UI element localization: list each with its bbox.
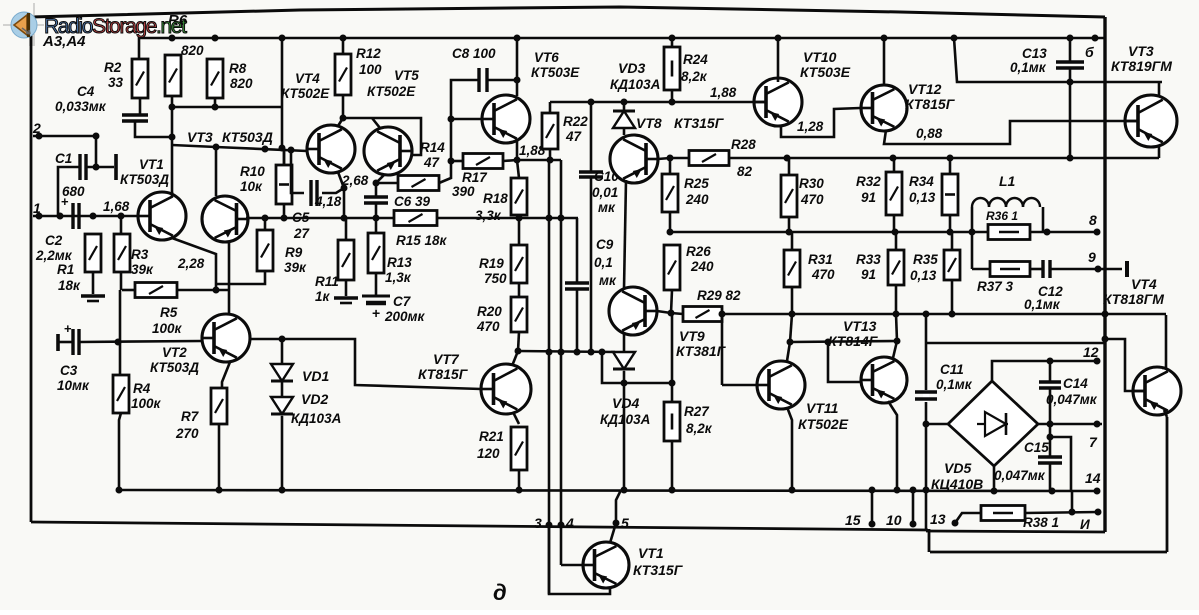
svg-text:R5: R5 — [160, 305, 178, 320]
svg-text:1к: 1к — [315, 289, 331, 304]
svg-text:КТ503Е: КТ503Е — [800, 64, 851, 80]
svg-text:КТ381Г: КТ381Г — [676, 343, 727, 359]
svg-text:33: 33 — [108, 75, 124, 90]
svg-text:VT6: VT6 — [534, 50, 559, 65]
svg-text:120: 120 — [477, 446, 500, 461]
svg-text:С4: С4 — [77, 84, 95, 99]
svg-text:12: 12 — [1083, 344, 1099, 360]
svg-text:R26: R26 — [686, 244, 711, 259]
svg-text:100к: 100к — [131, 396, 162, 411]
svg-text:47: 47 — [565, 129, 583, 144]
svg-text:R13: R13 — [387, 255, 412, 270]
svg-text:0,13: 0,13 — [909, 190, 936, 205]
svg-text:VT13: VT13 — [843, 318, 877, 334]
svg-text:КТ502Е: КТ502Е — [367, 84, 416, 99]
svg-text:+: + — [64, 321, 72, 336]
svg-text:VD2: VD2 — [301, 391, 328, 407]
svg-text:4,18: 4,18 — [314, 194, 342, 209]
svg-text:R8: R8 — [229, 61, 247, 76]
svg-text:VD4: VD4 — [612, 395, 639, 411]
svg-text:10к: 10к — [240, 179, 263, 194]
svg-text:VD1: VD1 — [302, 368, 329, 384]
svg-text:470: 470 — [476, 319, 500, 334]
svg-text:3,3к: 3,3к — [475, 208, 502, 223]
svg-text:VT9: VT9 — [679, 328, 705, 344]
svg-text:8: 8 — [1089, 212, 1097, 228]
svg-text:R38 1: R38 1 — [1023, 515, 1059, 530]
svg-text:9: 9 — [1088, 249, 1096, 265]
svg-text:14: 14 — [1085, 470, 1101, 486]
svg-text:С9: С9 — [596, 237, 614, 252]
svg-text:4: 4 — [565, 515, 574, 531]
svg-text:VT1: VT1 — [638, 545, 664, 561]
svg-text:7: 7 — [1089, 434, 1098, 450]
svg-text:VT4: VT4 — [295, 71, 320, 86]
svg-text:С1: С1 — [55, 151, 72, 166]
svg-text:VT11: VT11 — [806, 400, 839, 416]
svg-text:0,1мк: 0,1мк — [1024, 297, 1061, 312]
svg-text:КТ819ГМ: КТ819ГМ — [1111, 58, 1172, 74]
svg-text:R15 18к: R15 18к — [396, 233, 448, 248]
svg-text:R27: R27 — [684, 404, 710, 419]
svg-text:КД103А: КД103А — [291, 411, 341, 426]
svg-text:КТ818ГМ: КТ818ГМ — [1103, 291, 1164, 307]
svg-text:И: И — [1080, 517, 1090, 532]
svg-text:2,68: 2,68 — [341, 173, 369, 188]
svg-text:0,13: 0,13 — [910, 268, 937, 283]
svg-text:КТ503Д: КТ503Д — [222, 129, 273, 145]
svg-text:С8 100: С8 100 — [452, 46, 496, 61]
svg-text:750: 750 — [484, 271, 507, 286]
svg-text:б: б — [1085, 44, 1094, 60]
svg-text:R14: R14 — [420, 140, 445, 155]
svg-text:КТ315Г: КТ315Г — [633, 562, 684, 578]
svg-text:мк: мк — [598, 200, 616, 215]
svg-text:КТ814Г: КТ814Г — [828, 333, 879, 349]
svg-text:КТ503Д: КТ503Д — [150, 360, 199, 375]
svg-text:R3: R3 — [131, 247, 149, 262]
svg-text:VT12: VT12 — [908, 81, 942, 97]
svg-text:R34: R34 — [909, 174, 934, 189]
svg-text:47: 47 — [423, 155, 441, 170]
svg-text:R18: R18 — [483, 191, 508, 206]
svg-text:0,047мк: 0,047мк — [1046, 392, 1098, 407]
svg-text:8,2к: 8,2к — [681, 69, 708, 84]
svg-text:R1: R1 — [57, 262, 74, 277]
svg-text:1,68: 1,68 — [103, 199, 130, 214]
svg-text:С11: С11 — [940, 362, 964, 377]
svg-text:820: 820 — [230, 76, 253, 91]
svg-text:КТ815Г: КТ815Г — [905, 96, 956, 112]
svg-text:КТ502Е: КТ502Е — [798, 416, 849, 432]
svg-text:0,01: 0,01 — [592, 185, 618, 200]
svg-text:1,88: 1,88 — [710, 85, 737, 100]
svg-text:39к: 39к — [284, 260, 307, 275]
svg-text:КТ503Д: КТ503Д — [120, 172, 169, 187]
svg-text:д: д — [493, 580, 507, 605]
svg-text:КЦ410В: КЦ410В — [931, 476, 983, 492]
svg-text:15: 15 — [845, 512, 861, 528]
svg-text:100: 100 — [359, 62, 382, 77]
svg-text:VD3: VD3 — [618, 60, 645, 76]
svg-text:R4: R4 — [133, 381, 151, 396]
svg-text:1,3к: 1,3к — [385, 270, 412, 285]
svg-text:91: 91 — [861, 190, 876, 205]
svg-text:R29 82: R29 82 — [697, 288, 741, 303]
svg-text:0,047мк: 0,047мк — [994, 468, 1046, 483]
svg-text:КТ815Г: КТ815Г — [418, 366, 469, 382]
svg-text:470: 470 — [800, 192, 824, 207]
svg-text:VT1: VT1 — [139, 157, 164, 172]
svg-text:39к: 39к — [131, 262, 154, 277]
svg-text:С13: С13 — [1022, 46, 1047, 61]
svg-text:820: 820 — [181, 43, 204, 58]
svg-text:мк: мк — [599, 273, 617, 288]
svg-text:R25: R25 — [684, 176, 709, 191]
svg-text:2,28: 2,28 — [177, 256, 205, 271]
svg-text:270: 270 — [175, 426, 199, 441]
svg-text:R2: R2 — [104, 60, 122, 75]
svg-text:КТ502Е: КТ502Е — [281, 86, 330, 101]
svg-text:10мк: 10мк — [57, 378, 90, 393]
svg-text:91: 91 — [861, 267, 876, 282]
svg-text:VT2: VT2 — [162, 345, 187, 360]
svg-text:R9: R9 — [285, 245, 303, 260]
svg-text:R37 3: R37 3 — [977, 279, 1014, 294]
svg-text:R31: R31 — [808, 252, 833, 267]
svg-text:R20: R20 — [477, 304, 502, 319]
svg-text:0,1мк: 0,1мк — [1010, 60, 1047, 75]
svg-text:VT8: VT8 — [636, 115, 662, 131]
svg-text:18к: 18к — [58, 278, 81, 293]
svg-text:8,2к: 8,2к — [686, 421, 713, 436]
svg-text:VT10: VT10 — [803, 49, 837, 65]
svg-text:R7: R7 — [181, 409, 200, 424]
svg-text:3: 3 — [534, 515, 542, 531]
svg-text:КТ503Е: КТ503Е — [531, 65, 580, 80]
svg-text:R11: R11 — [315, 274, 339, 289]
svg-text:КТ315Г: КТ315Г — [674, 115, 725, 131]
svg-text:VD5: VD5 — [944, 460, 971, 476]
svg-text:200мк: 200мк — [384, 309, 426, 324]
svg-text:R17: R17 — [462, 170, 488, 185]
svg-text:R21: R21 — [479, 429, 504, 444]
svg-text:R19: R19 — [479, 256, 504, 271]
svg-text:КД103А: КД103А — [610, 77, 660, 92]
svg-text:0,033мк: 0,033мк — [55, 99, 107, 114]
svg-text:2,2мк: 2,2мк — [35, 248, 73, 263]
svg-text:27: 27 — [293, 226, 311, 241]
svg-text:R33: R33 — [856, 252, 881, 267]
svg-text:5: 5 — [621, 515, 629, 531]
svg-text:С6 39: С6 39 — [394, 194, 431, 209]
svg-text:С15: С15 — [1024, 440, 1049, 455]
svg-text:R12: R12 — [356, 46, 381, 61]
svg-text:R32: R32 — [856, 174, 881, 189]
svg-text:С7: С7 — [393, 294, 412, 309]
svg-text:VT3: VT3 — [1128, 43, 1154, 59]
svg-text:R22: R22 — [563, 114, 588, 129]
svg-text:13: 13 — [930, 511, 946, 527]
svg-text:0,88: 0,88 — [916, 126, 943, 141]
svg-text:VT7: VT7 — [433, 351, 460, 367]
svg-text:VT4: VT4 — [1131, 276, 1157, 292]
svg-text:R30: R30 — [799, 176, 824, 191]
svg-text:1,28: 1,28 — [797, 119, 824, 134]
svg-text:С14: С14 — [1063, 376, 1088, 391]
svg-text:+: + — [372, 305, 380, 321]
svg-text:С5: С5 — [292, 210, 310, 225]
svg-text:10: 10 — [886, 512, 902, 528]
svg-text:R10: R10 — [240, 164, 265, 179]
svg-text:VT3: VT3 — [187, 129, 213, 145]
svg-text:82: 82 — [737, 164, 753, 179]
svg-text:0,1: 0,1 — [594, 255, 613, 270]
svg-text:R36 1: R36 1 — [986, 209, 1018, 223]
svg-text:С2: С2 — [45, 233, 63, 248]
svg-text:240: 240 — [690, 259, 714, 274]
svg-text:С3: С3 — [60, 363, 78, 378]
svg-text:R24: R24 — [683, 52, 708, 67]
svg-text:100к: 100к — [152, 321, 183, 336]
svg-text:470: 470 — [811, 267, 835, 282]
svg-text:А3,А4: А3,А4 — [42, 33, 86, 50]
svg-text:0,1мк: 0,1мк — [936, 377, 973, 392]
svg-text:+: + — [61, 194, 69, 209]
svg-text:R28: R28 — [731, 137, 756, 152]
svg-text:390: 390 — [452, 184, 475, 199]
svg-text:L1: L1 — [999, 173, 1016, 189]
svg-text:VT5: VT5 — [394, 68, 419, 83]
svg-text:240: 240 — [685, 192, 709, 207]
svg-text:R35: R35 — [913, 252, 938, 267]
